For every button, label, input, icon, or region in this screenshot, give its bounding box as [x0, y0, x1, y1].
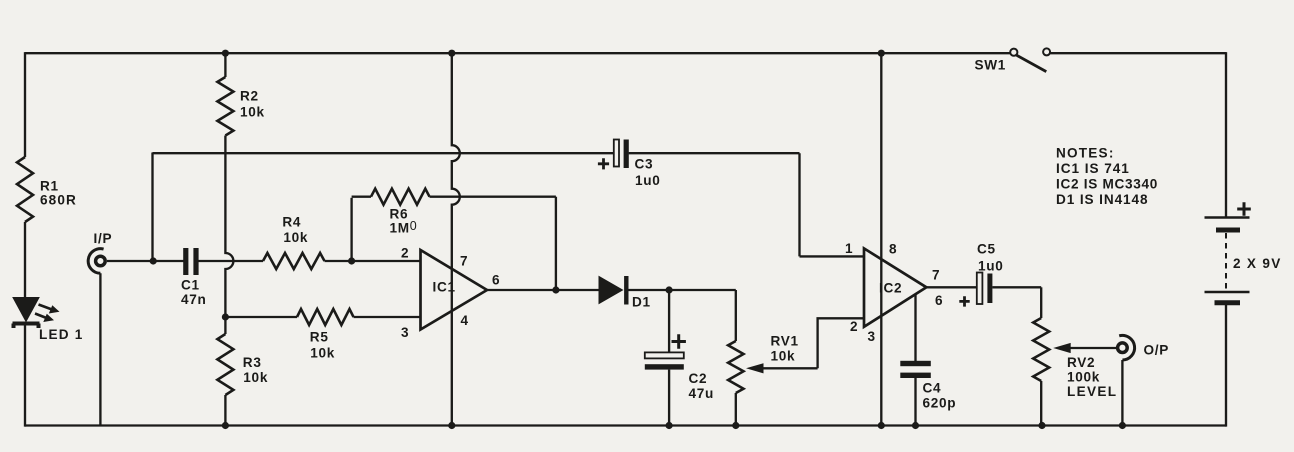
- svg-text:NOTES:: NOTES:: [1056, 146, 1115, 161]
- node junction IC1 supply top: [448, 50, 455, 57]
- svg-text:R1: R1: [40, 179, 59, 194]
- polarity + of battery: [1237, 202, 1251, 216]
- node junction R3 ground: [222, 422, 229, 429]
- capacitor C1 right plate: [193, 248, 198, 275]
- switch SW1 lever: [1017, 55, 1047, 71]
- svg-text:10k: 10k: [243, 370, 268, 385]
- svg-text:RV1: RV1: [771, 334, 799, 349]
- capacitor C5 left plate (open): [977, 273, 983, 305]
- wire R2 bottom with hop over C1 wire: [225, 136, 233, 318]
- wire divider to R3: [224, 317, 226, 334]
- svg-text:100k: 100k: [1067, 370, 1100, 385]
- svg-text:47n: 47n: [181, 292, 207, 307]
- capacitor C2 bottom plate: [645, 364, 684, 369]
- svg-text:IC2: IC2: [879, 281, 902, 296]
- node junction O/P ground: [1119, 422, 1126, 429]
- wire into IC2 pin 1: [800, 255, 865, 257]
- switch SW1 left contact: [1010, 49, 1017, 56]
- capacitor C4 top plate: [900, 361, 931, 366]
- capacitor C5 right plate: [987, 274, 992, 304]
- terminal I/P outer arc: [88, 249, 103, 274]
- capacitor C2 top plate (open): [645, 352, 684, 358]
- polarity + of C5: [959, 296, 969, 306]
- terminal O/P outer arc: [1119, 335, 1134, 360]
- wire R6 to corner: [430, 196, 556, 198]
- svg-text:10k: 10k: [283, 230, 308, 245]
- capacitor C3 left plate (open): [614, 140, 619, 167]
- svg-text:R5: R5: [310, 330, 329, 345]
- wire O/P drop to ground rail: [1121, 360, 1123, 426]
- wire mid-rail to C3: [153, 152, 615, 154]
- svg-text:D1: D1: [632, 295, 651, 310]
- node junction R4/R6: [348, 257, 355, 264]
- svg-text:1u0: 1u0: [635, 173, 661, 188]
- svg-text:6: 6: [492, 273, 500, 288]
- op-amp IC2: [864, 248, 926, 326]
- svg-text:4: 4: [461, 313, 469, 328]
- wire D1 to RV1: [629, 289, 736, 291]
- svg-text:R3: R3: [243, 355, 262, 370]
- resistor R1: [17, 157, 33, 222]
- wire R5 to IC1 pin3: [354, 316, 421, 318]
- node junction R6/output: [552, 286, 559, 293]
- wire I/P drop to ground rail: [99, 273, 101, 425]
- node junction IC2 supply ground: [878, 422, 885, 429]
- resistor R4: [263, 253, 325, 269]
- wire LED to bottom rail: [24, 326, 26, 427]
- svg-text:R6: R6: [390, 207, 409, 222]
- resistor R3: [217, 334, 233, 395]
- svg-text:C4: C4: [923, 381, 942, 396]
- switch SW1 right contact: [1043, 48, 1050, 55]
- wire IC1 pin6 output: [487, 289, 599, 291]
- wire RV1 to ground rail: [735, 393, 737, 426]
- wire C5 to RV2 corner: [992, 286, 1041, 288]
- svg-text:1u0: 1u0: [978, 259, 1004, 274]
- wire RV2 to ground rail: [1040, 381, 1042, 426]
- svg-text:SW1: SW1: [975, 58, 1007, 73]
- svg-text:7: 7: [932, 268, 940, 283]
- svg-text:R4: R4: [282, 215, 301, 230]
- LED LED1 light arrow 2: [35, 314, 54, 323]
- LED LED1 triangle: [13, 298, 39, 322]
- potentiometer RV1 wiper arrow: [746, 363, 818, 373]
- wire R2 top: [224, 53, 226, 77]
- svg-text:IC1 IS 741: IC1 IS 741: [1056, 161, 1130, 176]
- battery cell2 negative plate: [1215, 300, 1241, 305]
- wire top supply rail (SW1 to top-right corner): [1050, 52, 1226, 54]
- svg-text:47u: 47u: [689, 386, 715, 401]
- svg-text:680R: 680R: [40, 193, 77, 208]
- potentiometer RV1: [728, 341, 743, 393]
- resistor R2: [217, 77, 233, 136]
- svg-text:C1: C1: [181, 278, 200, 293]
- svg-text:LED 1: LED 1: [39, 327, 84, 342]
- diode D1 triangle: [599, 277, 623, 304]
- terminal I/P ring: [96, 256, 106, 266]
- battery cell2 positive plate: [1205, 291, 1250, 294]
- polarity + of C2: [672, 334, 686, 348]
- capacitor C1 left plate: [183, 248, 188, 275]
- wire IC2 supply line: [880, 53, 882, 425]
- svg-text:D1 IS IN4148: D1 IS IN4148: [1056, 192, 1148, 207]
- svg-text:10k: 10k: [310, 345, 335, 360]
- capacitor C3 right plate: [624, 140, 629, 169]
- svg-text:IC1: IC1: [433, 280, 456, 295]
- wire R6 drop to output: [555, 197, 557, 290]
- wire right border (battery bottom segment): [1225, 303, 1227, 427]
- svg-text:3: 3: [401, 325, 409, 340]
- node junction C4 ground: [912, 422, 919, 429]
- svg-text:7: 7: [460, 254, 468, 269]
- wire R1 to LED: [24, 222, 26, 298]
- svg-text:8: 8: [889, 242, 897, 257]
- wire C2 to ground rail: [668, 370, 670, 426]
- wire C3 to corner: [629, 152, 800, 154]
- wire IC2 pin7 output: [926, 286, 977, 288]
- node junction IC2 supply top: [878, 50, 885, 57]
- svg-text:2 X 9V: 2 X 9V: [1233, 256, 1282, 271]
- svg-text:C5: C5: [977, 242, 996, 257]
- op-amp IC1: [421, 250, 488, 330]
- svg-text:10k: 10k: [240, 105, 265, 120]
- wire R3 to ground rail: [224, 395, 226, 426]
- node junction RV2 ground: [1038, 422, 1045, 429]
- svg-text:2: 2: [401, 246, 409, 261]
- capacitor C4 bottom plate: [900, 373, 931, 378]
- node junction RV1 ground: [732, 422, 739, 429]
- polarity + of C3: [598, 158, 609, 169]
- svg-text:10k: 10k: [771, 349, 796, 364]
- svg-text:IC2 IS MC3340: IC2 IS MC3340: [1056, 177, 1158, 192]
- wire I/P to C1: [107, 260, 184, 262]
- node junction IC1 supply ground: [448, 422, 455, 429]
- battery dashed link: [1225, 233, 1227, 290]
- resistor R6: [371, 189, 430, 205]
- terminal O/P ring: [1118, 343, 1128, 353]
- svg-text:LEVEL: LEVEL: [1067, 384, 1117, 399]
- node junction C2 ground: [666, 422, 673, 429]
- wire IC1 supply line with hops: [452, 53, 460, 425]
- wire IC2 pin6 to C4: [914, 294, 916, 361]
- svg-text:6: 6: [935, 293, 943, 308]
- node junction R2 top rail: [222, 50, 229, 57]
- wire corner down to RV2: [1040, 287, 1042, 318]
- svg-text:2: 2: [850, 319, 858, 334]
- wire right border (battery top segment): [1225, 52, 1227, 217]
- wire C4 to ground rail: [914, 378, 916, 426]
- diode D1 cathode bar: [624, 276, 628, 305]
- potentiometer RV2 wiper arrow: [1053, 343, 1117, 353]
- node junction D1/C2: [666, 286, 673, 293]
- node junction R2R3/R5: [222, 313, 229, 320]
- LED LED1 light arrow 1: [39, 305, 60, 314]
- battery cell1 positive plate: [1205, 216, 1250, 219]
- svg-text:I/P: I/P: [94, 231, 113, 246]
- svg-text:R2: R2: [240, 89, 259, 104]
- wire mid-rail riser x=152.5: [151, 153, 153, 262]
- wire top supply rail (left section to SW1): [25, 52, 1010, 54]
- wire R6 left lead: [352, 196, 371, 198]
- wire divider to R5: [225, 316, 297, 318]
- svg-text:620p: 620p: [923, 396, 957, 411]
- wire D1 node to C2: [668, 290, 670, 353]
- wire R6 left riser: [350, 198, 352, 261]
- wire C1 to R4: [198, 260, 263, 262]
- wire drop to IC2 pin1: [798, 153, 800, 256]
- node junction I/P line: [150, 257, 157, 264]
- wire R4 to IC1 pin2: [325, 260, 421, 262]
- potentiometer RV2: [1033, 318, 1049, 381]
- wire bottom ground rail: [25, 424, 1226, 426]
- svg-text:RV2: RV2: [1067, 355, 1095, 370]
- battery cell1 negative plate: [1216, 228, 1240, 233]
- svg-text:1: 1: [845, 241, 853, 256]
- svg-text:C2: C2: [689, 371, 708, 386]
- svg-text:C3: C3: [635, 157, 654, 172]
- svg-text:O/P: O/P: [1144, 343, 1170, 358]
- wire left border top segment: [24, 52, 26, 157]
- LED LED1 cathode bar: [13, 324, 40, 329]
- wire RV1 wiper to IC2 pin2: [818, 318, 864, 368]
- resistor R5: [297, 309, 354, 325]
- svg-text:3: 3: [868, 329, 876, 344]
- wire output to RV1 top: [735, 290, 737, 341]
